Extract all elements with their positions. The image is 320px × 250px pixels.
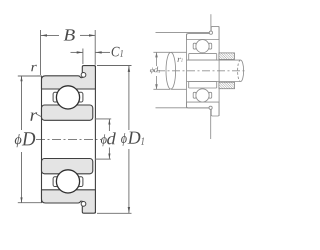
label phi_d1 xyxy=(150,68,154,74)
shaft surface through bearing and right side, top xyxy=(187,59,241,61)
arrow C1 pointing left xyxy=(96,51,102,53)
leader top: vertical line xyxy=(210,14,212,31)
leader top: horizontal line xyxy=(156,31,210,33)
left face line of bearing xyxy=(41,76,43,203)
dimension line phiD xyxy=(21,76,23,130)
label B xyxy=(64,29,75,40)
centerline (axis) of right view xyxy=(157,70,247,72)
r leader top left xyxy=(37,75,41,77)
extension line C1 left xyxy=(82,49,84,65)
flange right face line xyxy=(218,26,220,116)
label C xyxy=(112,47,120,57)
bearing left face line xyxy=(186,34,188,108)
dimension line C1 with outside arrows xyxy=(71,51,83,53)
label D1 xyxy=(128,132,141,144)
arrow C1 pointing right xyxy=(77,51,83,53)
label d1_sub xyxy=(158,70,160,73)
arrow phid1 down xyxy=(155,84,158,89)
inner ring top band xyxy=(189,54,217,61)
label r_mid xyxy=(30,112,37,120)
shaft surface bottom xyxy=(187,81,241,83)
shaft stub end ellipse xyxy=(166,52,176,89)
arrow B left xyxy=(41,34,47,36)
flange relief notch circle top xyxy=(81,73,86,78)
arrow phid1 up xyxy=(155,52,158,57)
right face line of bearing xyxy=(94,66,96,214)
extension line B right xyxy=(94,30,96,65)
label phi_D1 xyxy=(121,133,127,146)
cage tab right of bottom ball xyxy=(78,177,83,187)
ball bottom (side view) xyxy=(196,89,209,102)
phid1 extension line top xyxy=(153,51,170,53)
label phi_d xyxy=(101,134,107,146)
extension line phiD1 top xyxy=(97,65,132,67)
shaft right end ellipse solid right arc xyxy=(241,60,244,81)
cage tab right of top ball xyxy=(78,92,83,102)
r leader inner ring xyxy=(37,114,41,116)
label D1_sub xyxy=(141,138,144,145)
extension line B left xyxy=(40,30,42,75)
inner ring bottom band xyxy=(189,82,217,89)
leader bottom: vertical line xyxy=(210,109,212,139)
shaft stub bottom surface xyxy=(171,88,187,90)
outer ring bottom section with flange xyxy=(42,190,96,213)
extension line phiD bottom xyxy=(18,202,42,204)
extension line phiD top xyxy=(18,75,42,77)
arrow phiD1 up xyxy=(128,66,130,72)
inner ring top section xyxy=(42,105,93,120)
label r1_sub xyxy=(181,58,183,61)
collar hatched block top xyxy=(219,53,235,60)
shaft right end hidden left arc xyxy=(238,60,241,81)
flange relief notch circle bottom xyxy=(81,202,86,207)
cage tabs bottom ball xyxy=(193,92,196,98)
shaft stub top surface xyxy=(171,51,187,53)
label C_sub1 xyxy=(120,50,123,57)
arrow phid down xyxy=(108,154,110,159)
inner ring bottom section xyxy=(42,159,93,174)
outer ring top section with flange xyxy=(42,66,96,89)
extension line phid bottom xyxy=(95,158,111,160)
label phi_D xyxy=(15,134,22,147)
label d xyxy=(107,132,116,144)
arrow phiD up xyxy=(20,76,22,81)
outer ring top block with flange xyxy=(187,26,220,39)
extension line phiD1 bottom xyxy=(97,212,132,214)
label r_top xyxy=(31,65,37,71)
arrow phiD down xyxy=(20,197,22,202)
collar hatched block bottom xyxy=(219,82,235,89)
label D xyxy=(22,132,35,145)
cage tabs top ball xyxy=(193,43,196,49)
ball bottom xyxy=(56,170,79,193)
dimension line B xyxy=(41,34,59,36)
leader top: circle marker xyxy=(209,31,212,34)
label d1 xyxy=(154,67,158,73)
outer ring bottom block with flange xyxy=(187,102,220,116)
centerline (axis) of left view xyxy=(36,138,101,140)
cage tab left of bottom ball xyxy=(53,177,58,187)
leader bottom: circle marker xyxy=(209,106,212,109)
dimension line phiD1 xyxy=(128,66,130,130)
dimension line phid xyxy=(108,119,110,131)
extension line phid top xyxy=(95,118,111,120)
phid1 dimension line xyxy=(156,53,158,67)
ball top xyxy=(56,86,79,109)
label r1 xyxy=(178,58,182,62)
leader bottom: horizontal line xyxy=(156,107,210,109)
cage tab left of top ball xyxy=(53,92,58,102)
ball top (side view) xyxy=(196,40,209,53)
arrow phid up xyxy=(108,119,110,124)
arrow B right xyxy=(89,34,95,36)
phid1 extension line bottom xyxy=(153,88,170,90)
arrow phiD1 down xyxy=(128,207,130,213)
